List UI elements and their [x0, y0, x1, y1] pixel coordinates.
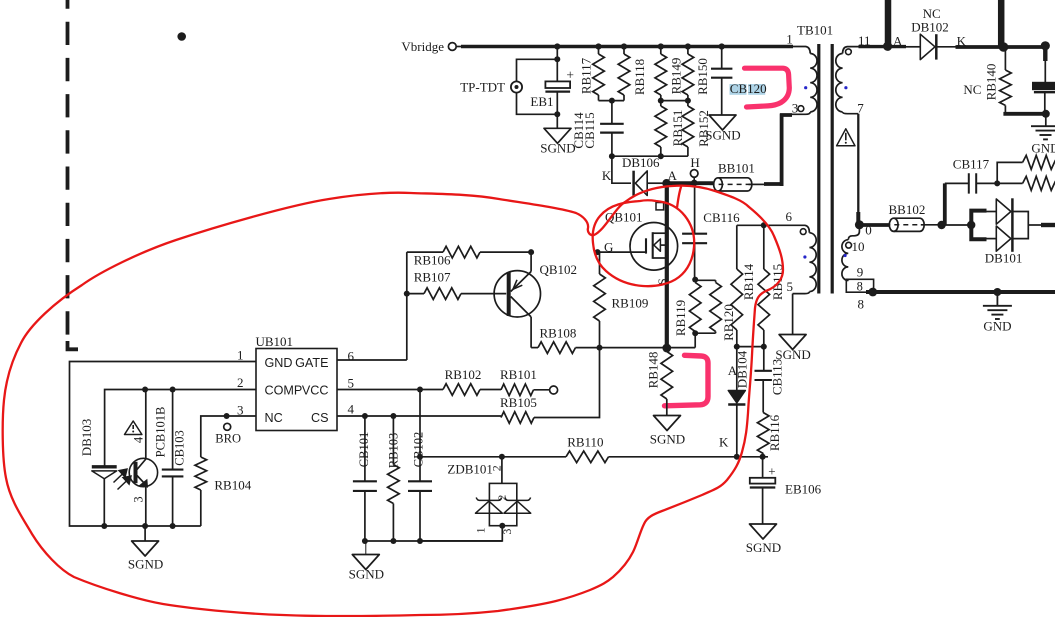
svg-text:GND: GND — [265, 356, 293, 370]
svg-text:H: H — [690, 155, 699, 170]
wire RB101 to open end — [534, 389, 550, 391]
svg-text:RB110: RB110 — [567, 435, 603, 450]
ground SGND below optocoupler — [144, 526, 146, 541]
capacitor EB1 (electrolytic) — [556, 47, 558, 82]
junction BB102 out — [937, 221, 945, 229]
junction TP top — [554, 56, 560, 62]
svg-text:CB103: CB103 — [172, 430, 186, 465]
polarity dot pin3 — [798, 106, 804, 112]
wire long CS/feedback horizontal — [420, 456, 768, 458]
svg-text:PCB101B: PCB101B — [153, 407, 167, 458]
junction cap bottom — [1042, 110, 1050, 118]
svg-text:K: K — [602, 168, 612, 183]
svg-text:8: 8 — [857, 280, 863, 294]
resistor RB107 — [407, 293, 424, 295]
svg-text:RB114: RB114 — [741, 263, 756, 300]
svg-text:BRO: BRO — [215, 432, 241, 446]
polarity dot pin6 — [800, 229, 806, 235]
svg-text:QB102: QB102 — [540, 262, 578, 277]
svg-text:SGND: SGND — [128, 557, 163, 572]
junction VCC/CB102 — [417, 387, 423, 393]
junction RB108/RB109 — [597, 345, 603, 351]
resistor RB120 — [695, 280, 715, 333]
svg-text:BB102: BB102 — [889, 202, 926, 217]
svg-text:RB105: RB105 — [500, 395, 537, 410]
red pen circle around QB101 — [593, 187, 695, 286]
wire pin11 node — [859, 45, 907, 48]
junction at GND — [993, 288, 1001, 296]
svg-text:BB101: BB101 — [718, 161, 755, 176]
wire pin7 down to node 0 — [857, 114, 859, 213]
svg-text:RB149: RB149 — [668, 58, 683, 95]
diode DB104 — [736, 347, 738, 391]
junction on rail at EB1 — [554, 43, 560, 49]
IC UB101 — [256, 349, 337, 431]
svg-text:NC: NC — [963, 82, 981, 97]
svg-text:CB116: CB116 — [703, 210, 740, 225]
wire pin6 GATE — [337, 359, 407, 361]
junction PCB101B collector — [142, 387, 148, 393]
svg-text:SGND: SGND — [349, 567, 384, 582]
diode DB106 — [612, 156, 631, 183]
transistor QB101 (MOSFET) — [630, 223, 678, 271]
capacitor CB116 — [694, 183, 696, 234]
junction QB102 emitter / gate node — [528, 249, 534, 255]
svg-text:RB104: RB104 — [214, 478, 251, 493]
wire bottom SGND rail — [365, 540, 502, 542]
wire pin2 COMP — [105, 390, 256, 466]
ground GND below cap — [1045, 114, 1047, 126]
svg-text:DB102: DB102 — [911, 19, 949, 34]
svg-text:RB150: RB150 — [695, 58, 710, 95]
polarity dot pin11 — [846, 49, 852, 55]
svg-text:1: 1 — [473, 527, 487, 533]
wire gate node — [598, 251, 647, 253]
svg-text:ZDB101: ZDB101 — [447, 462, 493, 477]
junction K/RB140 — [999, 42, 1009, 52]
blue mark secondary — [844, 86, 847, 89]
resistor lower right (cut) — [1023, 176, 1055, 190]
inductor BB101 (ferrite bead) — [718, 178, 752, 191]
resistor RB119 — [689, 282, 701, 331]
resistor RB114 — [736, 225, 738, 269]
capacitor CB102 — [419, 390, 421, 482]
junction BRO — [224, 413, 230, 419]
junction RB115 top — [761, 222, 767, 228]
TB101 core — [817, 44, 820, 294]
junction DB104 cathode — [734, 454, 740, 460]
svg-text:RB117: RB117 — [578, 57, 593, 94]
svg-text:RB109: RB109 — [612, 296, 649, 311]
junction DB104 anode node — [734, 344, 740, 350]
light arrows into phototransistor — [114, 473, 125, 483]
wire TP-TDT loop — [517, 59, 558, 114]
svg-text:RB148: RB148 — [646, 352, 661, 389]
wire QB101 drain/source (thick vertical) — [665, 183, 669, 348]
junction opto rail at PCB101B — [142, 523, 148, 529]
svg-text:4: 4 — [132, 436, 146, 443]
svg-text:GATE: GATE — [295, 356, 328, 370]
junction CS-wire / long wire — [417, 454, 423, 460]
svg-text:GND: GND — [983, 319, 1011, 334]
svg-text:DB106: DB106 — [622, 155, 660, 170]
junction A-node (drain) — [662, 179, 670, 187]
resistor RB103 — [392, 416, 394, 465]
junction CB117 right — [994, 180, 1000, 186]
wire thick A-node to BB101 — [663, 181, 713, 185]
warning triangle near PCB101B — [125, 421, 142, 435]
capacitor CB103 — [172, 390, 174, 470]
wire thick stub top left (to pin11) — [885, 0, 892, 47]
junction H stub — [691, 180, 697, 186]
junction ZDB101 bottom — [499, 523, 505, 529]
wire Vbridge rail (thick) — [456, 46, 463, 48]
ground SGND below EB106 — [750, 524, 777, 539]
svg-text:7: 7 — [857, 100, 864, 115]
svg-text:NC: NC — [265, 411, 283, 425]
svg-text:A: A — [893, 34, 903, 49]
junction CB114 top — [609, 98, 615, 104]
wire gate drive vertical — [406, 252, 408, 360]
junction CB101 top — [362, 413, 368, 419]
wire thick stub top (K) — [998, 0, 1005, 47]
junction on rail at RB150 — [685, 43, 691, 49]
svg-text:VCC: VCC — [302, 384, 329, 398]
svg-text:K: K — [719, 435, 729, 450]
svg-text:CB101: CB101 — [357, 432, 371, 467]
wire pin3 NC / BRO — [201, 416, 256, 454]
junction CB113 top — [761, 344, 767, 350]
wire RB149/RB150 bottoms — [661, 100, 688, 102]
junction RB107 left — [404, 291, 410, 297]
svg-text:COMP: COMP — [265, 384, 303, 398]
svg-text:1: 1 — [237, 348, 244, 363]
svg-text:6: 6 — [348, 349, 355, 364]
wire CB117 left to BB102 node (thick) — [943, 183, 947, 225]
svg-text:3: 3 — [132, 496, 146, 502]
junction K/cap right — [1041, 41, 1050, 50]
wire RB102-RB101 — [480, 389, 501, 391]
wire ZDB101 bottom to rail — [420, 526, 502, 541]
junction ZDB101 top — [499, 454, 505, 460]
gate pad square — [656, 203, 664, 210]
svg-text:TP-TDT: TP-TDT — [460, 80, 505, 95]
wire pin8 ground rail (thick) — [866, 290, 1055, 294]
junction CB116 bottom — [692, 277, 698, 283]
junction DB101 feed — [967, 221, 975, 229]
junction source node (thick) — [662, 344, 671, 353]
wire DB101 output (thick) — [1041, 223, 1055, 227]
junction on rail at RB149 — [658, 43, 664, 49]
svg-text:DB104: DB104 — [735, 350, 750, 388]
svg-text:CB102: CB102 — [411, 432, 425, 467]
resistor RB148 — [661, 352, 673, 400]
resistor RB116 — [757, 413, 769, 454]
photodiode DB103 — [104, 389, 106, 391]
wire pin6 top node — [737, 224, 800, 226]
resistor RB105 — [501, 412, 534, 424]
svg-text:RB103: RB103 — [386, 433, 400, 468]
junction pin8 — [868, 288, 877, 297]
ground SGND below TB101 pin5 — [792, 294, 794, 335]
resistor RB106 — [407, 251, 443, 253]
junction G node at RB109 — [595, 249, 601, 255]
diode DB101 (dual) — [987, 211, 997, 213]
ground SGND below RB148 — [654, 416, 681, 431]
svg-text:10: 10 — [852, 239, 865, 254]
junction at CB114 bottom — [609, 153, 615, 159]
svg-text:RB102: RB102 — [445, 367, 482, 382]
svg-text:RB118: RB118 — [632, 59, 647, 95]
junction pin11/A — [883, 42, 892, 51]
wire RB140 bottom (thick) — [1003, 112, 1046, 116]
wire pin1 GND loop — [70, 362, 257, 527]
svg-text:UB101: UB101 — [256, 334, 294, 349]
junction at RB151 bottom — [658, 153, 664, 159]
resistor RB109 — [599, 252, 601, 274]
ground SGND below CB101 rail — [365, 541, 367, 555]
resistor upper right (cut) — [1023, 155, 1055, 169]
wire RB114/RB115 bottoms — [737, 346, 764, 348]
resistor RB149 — [660, 47, 662, 55]
wire RB117/RB118 bottoms — [599, 100, 625, 102]
ground GND chassis — [996, 292, 998, 306]
svg-text:SGND: SGND — [650, 432, 685, 447]
resistor RB108 — [531, 347, 538, 349]
svg-text:+: + — [768, 464, 775, 479]
wire K node (thick) — [956, 45, 1046, 49]
junction RB116 bottom / EB106 — [760, 454, 766, 460]
svg-text:RB116: RB116 — [767, 414, 782, 451]
phototransistor PCB101B — [129, 458, 157, 486]
junction CB103 top — [170, 387, 176, 393]
warning triangle TB101 — [837, 129, 855, 146]
svg-text:Vbridge: Vbridge — [401, 39, 444, 54]
junction RB151 top — [658, 98, 664, 104]
svg-text:EB106: EB106 — [785, 482, 822, 497]
junction on rail at CB120 — [719, 43, 725, 49]
svg-text:CB120: CB120 — [730, 81, 767, 96]
junction RB103 top — [390, 413, 396, 419]
capacitor CB113 — [763, 347, 765, 371]
wire to upper NC resistor — [997, 162, 1022, 183]
wire DB101 anode bracket (thick) — [971, 211, 986, 240]
resistor RB110 — [566, 451, 609, 463]
resistor RB151 — [660, 101, 662, 106]
wire CS row to RB105 — [500, 416, 502, 418]
resistor RB152 — [687, 101, 689, 106]
bullet dot top-left — [177, 32, 186, 41]
svg-text:CS: CS — [311, 411, 329, 425]
svg-text:GND: GND — [1031, 141, 1055, 156]
resistor RB104 — [200, 416, 202, 455]
blue mark lower secondary — [844, 254, 847, 257]
capacitor CB114 / CB115 — [611, 101, 613, 124]
svg-text:RB106: RB106 — [414, 253, 451, 268]
node BRO — [224, 423, 231, 430]
svg-text:9: 9 — [857, 265, 864, 280]
svg-text:CB115: CB115 — [582, 112, 597, 148]
svg-text:5: 5 — [787, 279, 794, 294]
junction on rail at RB117 — [595, 43, 601, 49]
capacitor CB120 — [721, 47, 723, 69]
junction RB152 top — [685, 98, 691, 104]
wire source/CS rail — [600, 347, 696, 349]
ground SGND below CB120 — [709, 115, 736, 130]
svg-text:4: 4 — [348, 402, 355, 417]
resistor RB102 — [443, 384, 480, 396]
svg-text:DB101: DB101 — [985, 251, 1023, 266]
svg-text:SGND: SGND — [705, 127, 740, 142]
svg-text:DB103: DB103 — [79, 419, 94, 457]
svg-text:5: 5 — [348, 376, 355, 391]
blue mark primary — [804, 86, 807, 89]
resistor RB117 — [598, 47, 600, 55]
svg-text:RB101: RB101 — [500, 367, 537, 382]
junction opto rail at CB103 — [170, 523, 176, 529]
resistor RB118 — [623, 47, 625, 55]
blue mark aux — [803, 255, 806, 258]
svg-text:TB101: TB101 — [797, 23, 833, 38]
wire pin4 CS — [337, 415, 501, 417]
svg-text:RB108: RB108 — [540, 325, 577, 340]
wire pin5 VCC — [337, 389, 443, 391]
capacitor EB106 (electrolytic) — [762, 457, 764, 478]
svg-text:1: 1 — [786, 32, 793, 47]
svg-text:8: 8 — [858, 297, 865, 312]
svg-text:2: 2 — [237, 375, 244, 390]
junction on rail at RB118 — [621, 43, 627, 49]
resistor RB101 — [501, 384, 534, 396]
wire BB101 to pin3 of TB101 (thick L) — [749, 183, 765, 185]
junction RB119 bottom — [692, 330, 698, 336]
svg-text:6: 6 — [786, 209, 793, 224]
pink highlighter bracket beside RB148 — [665, 355, 709, 406]
svg-text:EB1: EB1 — [530, 94, 553, 109]
junction pin 0 node — [855, 220, 864, 229]
zener ZDB101 — [501, 457, 503, 484]
red pen big loop — [3, 186, 783, 617]
junction rail CB101 — [362, 538, 368, 544]
junction rail CB102 — [417, 538, 423, 544]
svg-text:RB119: RB119 — [673, 300, 688, 336]
junction rail RB103 — [390, 538, 396, 544]
wire K-node horizontal — [612, 155, 688, 157]
svg-text:+: + — [566, 67, 574, 82]
resistor RB150 — [687, 47, 689, 55]
svg-text:CB113: CB113 — [770, 359, 785, 395]
svg-text:RB107: RB107 — [414, 270, 451, 285]
junction opto rail at DB103 — [101, 523, 107, 529]
capacitor right of RB140 (electrolytic) — [1044, 61, 1046, 83]
svg-text:3: 3 — [792, 101, 799, 116]
junction TP bottom — [554, 111, 560, 117]
ground SGND below EB1 — [556, 114, 558, 128]
transistor QB102 (PNP) — [494, 271, 540, 317]
pink highlighter bracket beside CB120 — [745, 68, 790, 107]
highlight over CB120 label — [730, 84, 747, 95]
svg-text:2: 2 — [496, 495, 508, 501]
svg-text:2: 2 — [489, 465, 503, 471]
polarity dot pin10 — [846, 242, 852, 248]
dashed page border (left) — [66, 0, 70, 335]
svg-text:SGND: SGND — [746, 540, 781, 555]
capacitor CB101 — [364, 416, 366, 481]
svg-text:RB140: RB140 — [983, 64, 998, 101]
svg-text:CB117: CB117 — [953, 156, 990, 171]
resistor RB115 — [763, 225, 765, 269]
wire RB105 right to source rail — [534, 348, 600, 418]
svg-text:SGND: SGND — [775, 347, 810, 362]
